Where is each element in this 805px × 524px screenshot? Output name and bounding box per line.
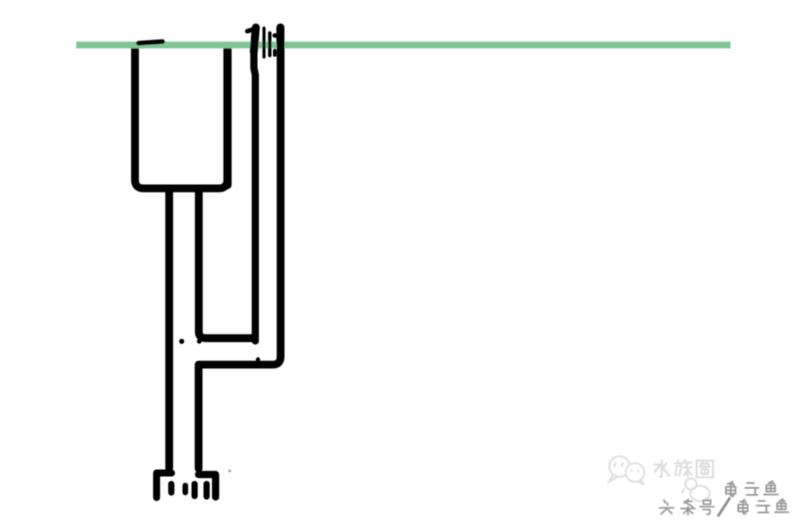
container cup	[135, 47, 228, 188]
top hook squiggle: blob D with protrusion	[276, 28, 284, 43]
watermark: penguin icon	[682, 478, 710, 501]
rim mark	[139, 42, 163, 44]
top hook squiggle: left hook	[247, 29, 253, 31]
junction artifact dot on lower horizontal	[256, 357, 260, 361]
watermark row1 text: 龟与鱼	[726, 481, 778, 496]
top hook squiggle: thin stroke C	[268, 33, 271, 56]
small gray dot near right foot	[228, 470, 231, 473]
watermark text: 水族圈	[654, 460, 713, 478]
watermark row2 white emboss: 头条号 / 龟与鱼	[660, 500, 789, 517]
inner tube left foot	[157, 473, 172, 498]
top hook squiggle: thin stroke B	[262, 28, 265, 57]
inner tube left wall	[165, 190, 173, 468]
right foot	[199, 475, 216, 498]
watermark row2 text: 头条号 / 龟与鱼	[659, 499, 788, 516]
bottom slit 4	[204, 484, 210, 497]
bottom slit 3	[192, 484, 198, 496]
watermark row1 white emboss: 龟与鱼	[727, 482, 779, 497]
bottom slit 2	[183, 486, 189, 493]
outer tube left wall	[254, 48, 255, 341]
bottom slit 1	[168, 484, 174, 493]
outer tube right wall with bend and down tube	[199, 42, 281, 469]
watermark: wechat icon	[609, 456, 644, 484]
junction artifact dot left	[179, 339, 184, 344]
top hook squiggle: right stub	[273, 51, 277, 56]
container cup right wall	[223, 49, 231, 186]
ink blob at upper bend corner	[197, 339, 202, 344]
water surface line	[76, 42, 730, 49]
top hook squiggle: thick stroke A	[254, 28, 256, 52]
inner tube right wall with lower bend	[199, 190, 253, 338]
